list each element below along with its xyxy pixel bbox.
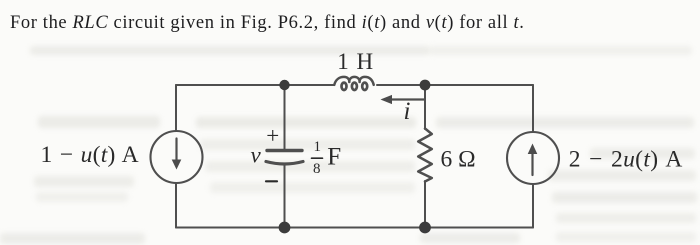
svg-text:6 Ω: 6 Ω <box>441 146 476 172</box>
svg-text:+: + <box>266 123 279 148</box>
capacitor C1 bottom plate <box>266 162 303 165</box>
wire bottom <box>176 227 533 229</box>
svg-text:2 − 2u(t) A: 2 − 2u(t) A <box>569 147 683 173</box>
wire right vertical (above source) <box>532 85 534 132</box>
resistor R1 zigzag <box>418 129 432 182</box>
svg-text:F: F <box>327 144 341 171</box>
faint bleed-through right block <box>436 117 694 128</box>
wire left vertical (below source) <box>175 183 177 228</box>
label minus <box>266 180 277 182</box>
node B junction dot top-right <box>420 80 431 91</box>
wire middle branch upper <box>284 85 286 149</box>
node C junction dot bottom-left <box>279 222 291 234</box>
svg-text:i: i <box>404 98 411 125</box>
wire resistor branch upper <box>424 85 426 129</box>
current source I1 circle <box>151 131 203 183</box>
problem statement <box>10 13 525 34</box>
faint bleed-through middle block <box>196 117 416 128</box>
wire middle branch lower <box>284 164 286 228</box>
svg-text:1: 1 <box>314 139 322 155</box>
node D junction dot bottom-right <box>419 222 431 234</box>
wire resistor branch lower <box>424 181 426 228</box>
inductor L1 1 H <box>334 77 373 85</box>
current source I1 arrow (down) <box>175 139 177 164</box>
current source I2 circle <box>507 132 559 184</box>
faint bleed-through band top <box>30 46 430 55</box>
svg-text:1 − u(t) A: 1 − u(t) A <box>41 142 139 168</box>
current source I2 arrow (up) <box>531 151 533 175</box>
wire right vertical (below source) <box>532 184 534 228</box>
wire left vertical (above source) <box>175 85 177 131</box>
capacitor C1 top plate <box>267 149 302 152</box>
faint bleed-through left block <box>38 116 160 128</box>
svg-text:8: 8 <box>313 161 321 177</box>
svg-text:1 H: 1 H <box>337 49 374 74</box>
wire top-right segment <box>377 84 533 86</box>
svg-text:v: v <box>251 143 262 168</box>
node A junction dot top-left <box>279 80 289 90</box>
wire top-left segment <box>176 84 334 86</box>
current arrow i (points left) <box>390 98 425 100</box>
